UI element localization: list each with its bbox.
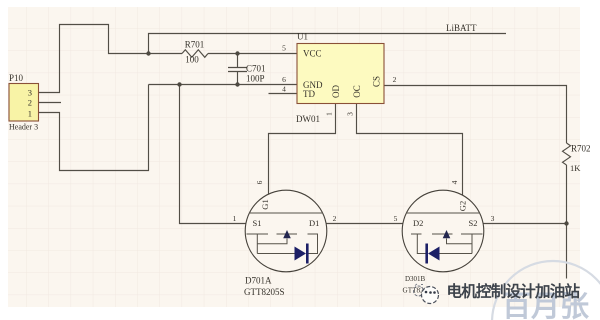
svg-text:3: 3 [491,214,495,223]
svg-text:6: 6 [282,75,286,84]
wire U1 pin1 OD to G1 [269,104,336,195]
svg-text:1K: 1K [570,163,581,173]
wire R701 to U1 pin5 VCC [208,53,297,55]
U1 pin numbers [282,44,397,94]
svg-text:100: 100 [185,55,199,65]
svg-text:D2: D2 [413,218,423,228]
Q1 body diode D1 [295,247,307,261]
svg-text:Header 3: Header 3 [9,123,38,132]
Q2 body diode D2 [428,247,440,261]
svg-text:D301B: D301B [405,275,426,283]
wire right rail below junction [566,224,568,279]
wire S2 to right rail junction [483,223,566,225]
wire U1 pin2 CS to right rail [384,86,567,144]
capacitor C3 C701 [228,54,247,85]
Q2 substrate arrow [443,230,451,238]
svg-text:1: 1 [28,109,32,119]
watermark large seal circle [492,261,600,320]
svg-text:S2: S2 [469,218,478,228]
Q1 channel dashes [247,233,319,235]
svg-text:D701A: D701A [245,276,272,286]
Q1 substrate arrow [283,230,291,238]
wire U1 pin3 OC to G2 [357,104,463,196]
watermark logo sketch circles [414,286,424,296]
Q2 substrate path [447,239,473,244]
junction node A [146,51,150,55]
svg-text:C701: C701 [246,64,266,74]
svg-text:U1: U1 [297,32,308,42]
svg-text:3: 3 [28,88,32,98]
svg-text:5: 5 [282,44,286,53]
Q2 body diode path [417,234,472,254]
svg-text:R701: R701 [185,40,205,50]
svg-text:GTT8205S: GTT8205S [244,287,285,297]
op-amp U1 DW01 body [297,44,384,104]
svg-text:CS: CS [372,76,382,87]
svg-text:DW01: DW01 [296,114,320,124]
svg-text:G1: G1 [260,199,270,209]
transistor Q2 D301B circle [402,190,484,272]
junction S2 / R702 [564,221,568,225]
svg-text:VCC: VCC [303,49,322,59]
svg-text:2: 2 [28,98,32,108]
svg-text:D1: D1 [309,218,319,228]
svg-text:OD: OD [331,85,341,98]
wire R702 to S2 node [566,165,568,224]
svg-text:6: 6 [255,180,264,184]
wire GND rail to U1 pin6 [149,84,298,86]
svg-text:5: 5 [394,214,398,223]
wire D1 to D2 [326,223,402,225]
svg-text:100P: 100P [246,74,265,84]
svg-text:4: 4 [450,180,459,184]
resistor R701 body [182,50,208,58]
wire LiBATT rail [149,34,507,54]
svg-text:2: 2 [333,214,337,223]
wire GND branch to S1 [180,85,246,224]
svg-text:OC: OC [352,85,362,98]
junction C701 top [235,51,239,55]
Q1 substrate path [257,239,287,244]
svg-text:S1: S1 [253,218,262,228]
svg-text:G2: G2 [458,201,468,211]
resistor R702 body [563,143,571,165]
Q2 channel dashes [411,233,483,235]
wire P10 pin3 to top-left route to node A [39,25,149,93]
svg-text:3: 3 [346,112,355,116]
junction C701 bottom [235,82,239,86]
Q1 body diode path [257,234,317,254]
wire P10 pin2 stub [39,102,62,104]
junction S1 branch [177,82,181,86]
svg-text:1: 1 [233,214,237,223]
svg-text:4: 4 [282,85,286,94]
wire P10 pin1 to GND rail [39,85,149,171]
connector P10 pin numbers [28,88,32,119]
svg-text:1: 1 [325,112,334,116]
svg-text:P10: P10 [9,73,24,83]
svg-text:TD: TD [303,89,315,99]
svg-text:2: 2 [393,75,397,84]
transistor Q1 D701A circle [245,190,327,272]
Q1 source-drain bar [249,212,323,214]
connector P10 body [9,84,39,122]
Q2 source stub [471,234,473,254]
Q1 source stub [256,234,258,254]
svg-text:电机控制设计加油站: 电机控制设计加油站 [447,282,581,301]
wire TD stub pin4 [269,93,298,95]
wire node A to R701 [149,53,183,55]
svg-text:LiBATT: LiBATT [446,23,477,33]
Q2 source-drain bar [406,212,480,214]
svg-text:R702: R702 [571,144,591,154]
